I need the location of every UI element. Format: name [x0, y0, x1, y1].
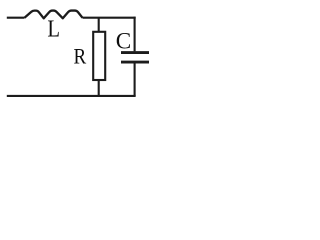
svg-text:L: L [47, 16, 60, 42]
wire resistor bottom branch [98, 80, 100, 96]
wire right branch to capacitor [134, 17, 136, 52]
wire below capacitor [134, 63, 136, 96]
wire resistor top branch [98, 18, 100, 32]
wire bottom rail [7, 95, 136, 97]
capacitor C bottom plate [121, 61, 149, 64]
inductor L [25, 11, 83, 19]
wire top rail [83, 17, 136, 19]
resistor R [93, 32, 105, 80]
svg-text:C: C [116, 29, 131, 54]
wire input top lead [7, 17, 25, 19]
svg-text:R: R [74, 44, 87, 69]
capacitor C top plate [121, 51, 149, 54]
